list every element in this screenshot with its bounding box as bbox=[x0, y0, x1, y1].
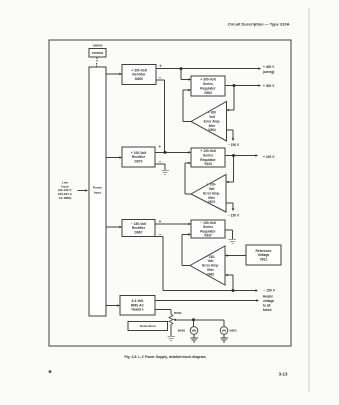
svg-text:V612: V612 bbox=[260, 258, 268, 262]
svg-text:Series: Series bbox=[203, 82, 213, 86]
svg-text:+ 100 V: + 100 V bbox=[263, 155, 275, 159]
svg-text:RMS AC: RMS AC bbox=[131, 303, 145, 307]
svg-text:Error Amp-: Error Amp- bbox=[204, 119, 221, 123]
svg-text:D667: D667 bbox=[135, 230, 143, 234]
svg-text:− 150-Volt: − 150-Volt bbox=[131, 222, 147, 226]
svg-text:− 150 V: − 150 V bbox=[228, 143, 240, 147]
svg-text:+ 300-Volt: + 300-Volt bbox=[200, 78, 216, 82]
svg-text:to all: to all bbox=[263, 303, 271, 307]
svg-text:Series: Series bbox=[203, 225, 213, 229]
svg-text:D670: D670 bbox=[135, 160, 143, 164]
svg-text:Volt: Volt bbox=[209, 187, 216, 191]
svg-text:Volt: Volt bbox=[208, 259, 215, 263]
svg-text:−: − bbox=[159, 76, 162, 81]
svg-text:B601: B601 bbox=[230, 329, 238, 333]
svg-text:+ 300 V: + 300 V bbox=[263, 84, 275, 88]
svg-text:SW600: SW600 bbox=[93, 43, 103, 47]
svg-text:V663: V663 bbox=[204, 91, 212, 95]
svg-text:180-264 V,: 180-264 V, bbox=[58, 192, 73, 196]
svg-text:lifier: lifier bbox=[209, 124, 216, 128]
svg-text:Circuit Description — Type 310: Circuit Description — Type 310A bbox=[228, 22, 290, 27]
svg-text:Regulator: Regulator bbox=[200, 158, 216, 162]
svg-text:Input: Input bbox=[61, 184, 68, 188]
svg-text:6.3-Volt: 6.3-Volt bbox=[132, 299, 145, 303]
svg-text:+ 100-Volt: + 100-Volt bbox=[131, 151, 147, 155]
svg-text:Fig. 3-8. L-V Power Supply, de: Fig. 3-8. L-V Power Supply, detailed blo… bbox=[125, 355, 207, 359]
svg-text:+ 400 V: + 400 V bbox=[263, 65, 275, 69]
svg-text:V674: V674 bbox=[208, 200, 216, 204]
svg-text:Regulator: Regulator bbox=[200, 229, 216, 233]
svg-text:+ 100-: + 100- bbox=[207, 183, 216, 187]
svg-text:Heater: Heater bbox=[263, 295, 274, 299]
svg-text:− 150 V: − 150 V bbox=[228, 214, 240, 218]
svg-text:Rectifier: Rectifier bbox=[132, 226, 146, 230]
svg-text:R600: R600 bbox=[174, 311, 182, 315]
svg-text:Voltage: Voltage bbox=[258, 253, 270, 257]
svg-text:+ 100-Volt: + 100-Volt bbox=[200, 149, 216, 153]
svg-text:V633: V633 bbox=[204, 162, 212, 166]
svg-text:Series: Series bbox=[203, 154, 213, 158]
svg-text:+ 300-Volt: + 300-Volt bbox=[131, 68, 147, 72]
svg-text:Heaters: Heaters bbox=[131, 308, 143, 312]
svg-text:(90-136 V,: (90-136 V, bbox=[58, 188, 72, 192]
svg-text:V662: V662 bbox=[207, 272, 215, 276]
svg-text:−: − bbox=[159, 159, 162, 164]
svg-text:Rectifier: Rectifier bbox=[132, 73, 146, 77]
svg-text:(unreg): (unreg) bbox=[263, 70, 274, 74]
svg-text:Power: Power bbox=[93, 186, 103, 190]
svg-text:tubes: tubes bbox=[263, 308, 272, 312]
svg-text:POWER: POWER bbox=[92, 51, 104, 55]
svg-text:V664: V664 bbox=[208, 128, 216, 132]
svg-text:+ 300: + 300 bbox=[208, 111, 216, 115]
svg-text:Reference: Reference bbox=[256, 249, 272, 253]
svg-text:+: + bbox=[159, 144, 162, 149]
svg-text:Input: Input bbox=[94, 190, 102, 194]
svg-text:Volt: Volt bbox=[209, 115, 216, 119]
svg-text:Scale Illum: Scale Illum bbox=[140, 324, 156, 328]
svg-text:+: + bbox=[159, 219, 162, 224]
svg-text:Line: Line bbox=[62, 180, 68, 184]
svg-text:lifier: lifier bbox=[207, 268, 214, 272]
svg-text:Error Amp-: Error Amp- bbox=[202, 264, 219, 268]
svg-text:− 150-: − 150- bbox=[206, 255, 215, 259]
svg-text:D660: D660 bbox=[135, 77, 143, 81]
svg-text:− 150 V: − 150 V bbox=[264, 289, 276, 293]
svg-text:AC RMS): AC RMS) bbox=[59, 196, 72, 200]
svg-text:+: + bbox=[159, 63, 162, 68]
svg-text:lifier: lifier bbox=[208, 196, 215, 200]
svg-text:Regulator: Regulator bbox=[200, 86, 216, 90]
svg-text:Error Amp-: Error Amp- bbox=[203, 191, 220, 195]
svg-text:Rectifier: Rectifier bbox=[132, 155, 146, 159]
svg-text:3-13: 3-13 bbox=[279, 372, 288, 377]
svg-text:B600: B600 bbox=[178, 329, 186, 333]
svg-text:− 150-Volt: − 150-Volt bbox=[200, 221, 216, 225]
svg-text:voltage: voltage bbox=[263, 299, 274, 303]
svg-text:V637: V637 bbox=[204, 233, 212, 237]
svg-text:−: − bbox=[159, 232, 162, 237]
